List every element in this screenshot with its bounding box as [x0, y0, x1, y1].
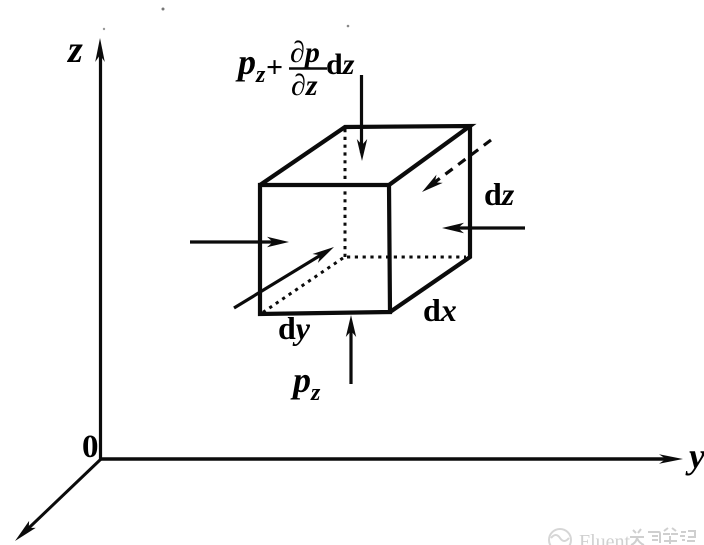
x-axis arrowhead [15, 521, 36, 541]
arrow bottom (p_z up onto bottom face) [346, 315, 356, 384]
z-axis [99, 49, 102, 459]
hidden edge diagonal (dotted) [262, 258, 343, 313]
scan speckles [162, 8, 165, 11]
svg-text:∂p: ∂p [290, 36, 320, 69]
arrow left (pointing right into left face) [190, 237, 289, 247]
arrow top (pressure down onto top face) [357, 75, 367, 161]
svg-text:+: + [266, 51, 283, 84]
arrow diagonal (pointing up-right into front face) [234, 247, 334, 308]
watermark icon [549, 529, 571, 545]
arrow right (pointing left into right face) [442, 223, 525, 233]
svg-text:0: 0 [82, 429, 99, 465]
svg-text:dx: dx [423, 292, 457, 328]
svg-text:dy: dy [278, 310, 311, 346]
arrow dashed (pointing down-left onto back x-face) [422, 140, 491, 192]
y-axis arrowhead [659, 454, 683, 464]
svg-text:Fluent: Fluent [579, 531, 631, 545]
cube front face [260, 126, 470, 314]
cube top face edges [260, 126, 470, 185]
y-axis [101, 457, 673, 460]
svg-text:dz: dz [484, 176, 515, 212]
hidden edge vertical (dotted) [344, 129, 347, 257]
hidden edge horizontal (dotted) [347, 256, 466, 259]
cube right face edges [390, 126, 470, 312]
z-axis arrowhead [95, 38, 105, 62]
x-axis [22, 459, 101, 535]
svg-text:∂z: ∂z [291, 69, 318, 102]
svg-text:dz: dz [326, 48, 355, 81]
formula p_z + dp/dz dz [235, 36, 355, 102]
svg-text:z: z [66, 29, 83, 71]
watermark CJK glyph strokes [630, 528, 695, 545]
